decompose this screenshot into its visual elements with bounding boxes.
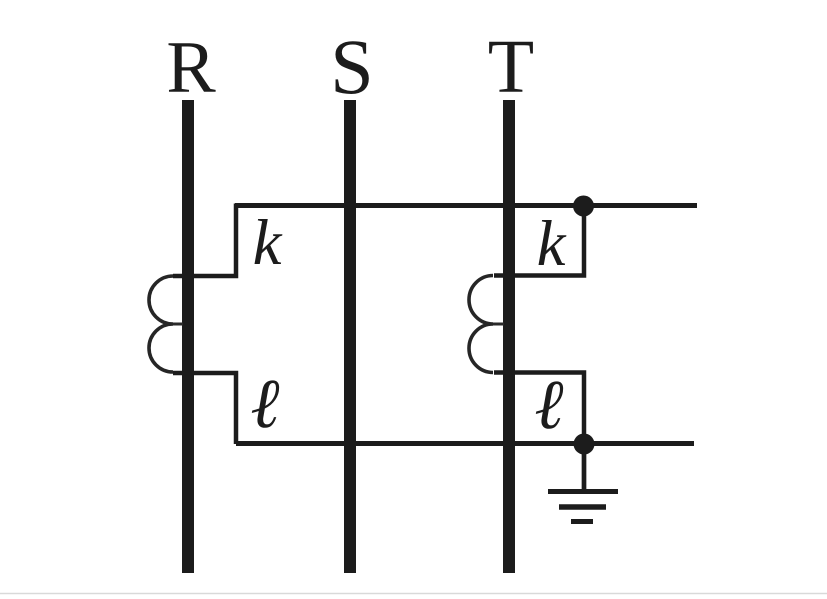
svg-text:ℓ: ℓ <box>250 366 279 443</box>
svg-text:ℓ: ℓ <box>534 367 563 444</box>
svg-text:k: k <box>537 208 567 280</box>
svg-text:R: R <box>166 27 216 109</box>
svg-text:S: S <box>330 23 373 110</box>
svg-text:k: k <box>253 207 283 279</box>
svg-text:T: T <box>488 25 534 109</box>
